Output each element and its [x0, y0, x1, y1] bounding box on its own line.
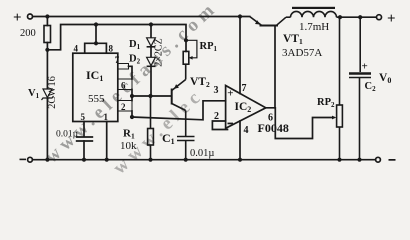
zener V1 — [42, 89, 54, 100]
wire base line to VT2 — [132, 95, 171, 97]
svg-text:+: + — [362, 61, 368, 73]
svg-text:F0048: F0048 — [258, 121, 289, 135]
svg-text:3AD57A: 3AD57A — [282, 47, 322, 59]
wire IC2 pin4 to ground — [239, 121, 241, 160]
capacitor 0.01u (pin5) — [76, 137, 93, 141]
wire pins 6-2 tie vertical — [131, 90, 133, 101]
pin 2 — [118, 101, 132, 112]
terminal output - (bottom right) — [376, 157, 381, 162]
op-amp IC2 — [226, 86, 266, 129]
wire D2 to base node — [150, 67, 152, 96]
svg-text:4: 4 — [74, 44, 79, 54]
wire IC2 pin7 supply — [239, 17, 241, 94]
svg-text:3: 3 — [214, 85, 219, 96]
inductor 1.7mH — [286, 16, 291, 18]
wire pin4-pin8 bridge — [85, 43, 107, 53]
wire branch from R200 to RP1/IC1/diodes — [47, 25, 186, 52]
wire top rail — [33, 16, 250, 18]
svg-text:1: 1 — [104, 112, 109, 122]
wire IC1 Vcc drop — [95, 25, 97, 44]
svg-text:10k: 10k — [120, 140, 137, 152]
terminal input - (bottom left) — [28, 157, 33, 162]
wire left vertical (input branch) — [46, 17, 48, 26]
pin 6 — [118, 79, 132, 90]
diode D1 — [147, 38, 156, 47]
svg-text:1.7mH: 1.7mH — [299, 21, 329, 33]
svg-text:555: 555 — [88, 93, 105, 105]
ic1 555 box — [73, 53, 118, 121]
wire pin1 lead — [106, 122, 108, 160]
svg-text:+: + — [387, 11, 396, 27]
diode D2 — [147, 57, 156, 66]
svg-text:2×2CZ: 2×2CZ — [154, 38, 165, 66]
wire VT2 collector to RP1 — [185, 64, 187, 79]
wire bottom rail — [33, 159, 376, 161]
svg-text:+: + — [227, 88, 233, 100]
svg-text:4: 4 — [244, 125, 249, 136]
transistor VT2 — [172, 80, 186, 111]
wire pin5 lead — [83, 122, 85, 137]
potentiometer RP2 — [339, 17, 341, 105]
potentiometer RP1 — [183, 51, 189, 64]
transistor VT1 — [250, 17, 286, 26]
watermark — [41, 0, 222, 179]
svg-text:200: 200 — [20, 28, 36, 39]
wire IC2 output to RP2 wiper — [266, 108, 334, 139]
svg-text:2CW16: 2CW16 — [47, 76, 58, 109]
resistor R1 — [150, 96, 152, 129]
capacitor C1 — [185, 111, 187, 137]
resistor 200 — [44, 26, 51, 43]
wire IC2 pin2 feedback loop — [212, 121, 227, 130]
svg-text:8: 8 — [109, 44, 114, 54]
svg-text:2: 2 — [121, 102, 126, 112]
capacitor C2 electrolytic — [359, 17, 361, 72]
wire pin7 to tie line — [129, 66, 133, 79]
wire between D1 and D2 — [150, 48, 152, 58]
wire VT1 base drive — [274, 26, 276, 108]
svg-text:5: 5 — [81, 112, 86, 122]
svg-text:0.01µ: 0.01µ — [56, 130, 79, 140]
terminal input + — [28, 14, 33, 19]
svg-text:+: + — [13, 10, 22, 26]
wire long run IC1 pins to IC2 pin3 — [132, 101, 226, 120]
terminal output + — [377, 15, 382, 20]
svg-text:6: 6 — [121, 81, 126, 91]
wire inductor to output terminal — [337, 16, 377, 18]
wire diode chain top — [150, 25, 152, 38]
svg-text:7: 7 — [242, 83, 247, 94]
svg-text:0.01µ: 0.01µ — [190, 148, 214, 159]
